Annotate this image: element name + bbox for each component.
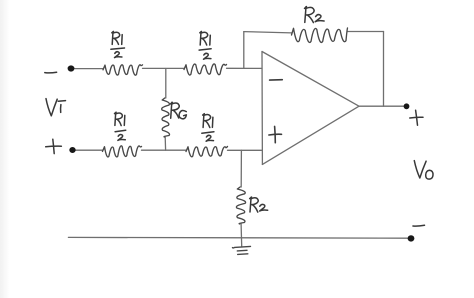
label R1/2 top-right	[199, 31, 211, 59]
wire feedback left vertical	[243, 32, 245, 69]
output minus sign	[413, 224, 425, 227]
label R1/2 top-left	[111, 31, 125, 57]
op-amp inverting input minus sign	[270, 79, 283, 81]
resistor R2 feedback	[292, 28, 348, 42]
node input plus terminal dot	[69, 147, 75, 153]
node ground rail right terminal dot	[408, 235, 415, 241]
wire output	[359, 105, 404, 107]
wire top input mid segment	[143, 67, 185, 69]
wire RG top vertical	[165, 69, 167, 99]
resistor R1/2 bottom-left	[103, 146, 142, 157]
resistor R2 to ground	[236, 187, 245, 224]
wire top input left segment	[74, 68, 103, 70]
label Vi	[46, 99, 66, 116]
label Vo	[414, 161, 433, 180]
label R2 to ground	[250, 197, 268, 212]
op-amp U1	[262, 52, 359, 165]
wire R2 bottom branch upper vertical	[240, 150, 242, 187]
output plus sign	[410, 110, 423, 125]
ground	[233, 246, 251, 254]
wire RG bottom vertical	[164, 137, 166, 150]
label R1/2 bottom-right	[202, 114, 214, 142]
wire bottom input mid segment	[142, 149, 187, 151]
label R1/2 bottom-left	[115, 112, 126, 140]
resistor R1/2 bottom-right	[186, 147, 228, 157]
wire feedback right vertical	[383, 32, 385, 107]
wire bottom input right segment to op-amp	[228, 149, 262, 151]
resistor RG	[162, 98, 170, 137]
input plus terminal sign	[46, 139, 62, 153]
node input minus terminal dot	[68, 65, 75, 71]
wire bottom input left segment	[76, 149, 103, 151]
node output terminal dot	[404, 103, 410, 109]
wire feedback top right horizontal	[348, 31, 384, 33]
resistor R1/2 top-right	[184, 64, 227, 75]
wire top input right segment to op-amp	[227, 67, 263, 69]
wire R2 bottom branch lower vertical	[240, 224, 243, 246]
wire bottom ground rail	[68, 236, 410, 239]
wire feedback top left horizontal	[244, 32, 292, 33]
input minus terminal sign	[45, 71, 57, 74]
label R2 feedback	[305, 7, 325, 23]
left page-edge shading	[0, 0, 9, 298]
op-amp non-inverting input plus sign	[269, 126, 282, 142]
resistor R1/2 top-left	[103, 65, 143, 75]
label RG	[170, 102, 186, 119]
